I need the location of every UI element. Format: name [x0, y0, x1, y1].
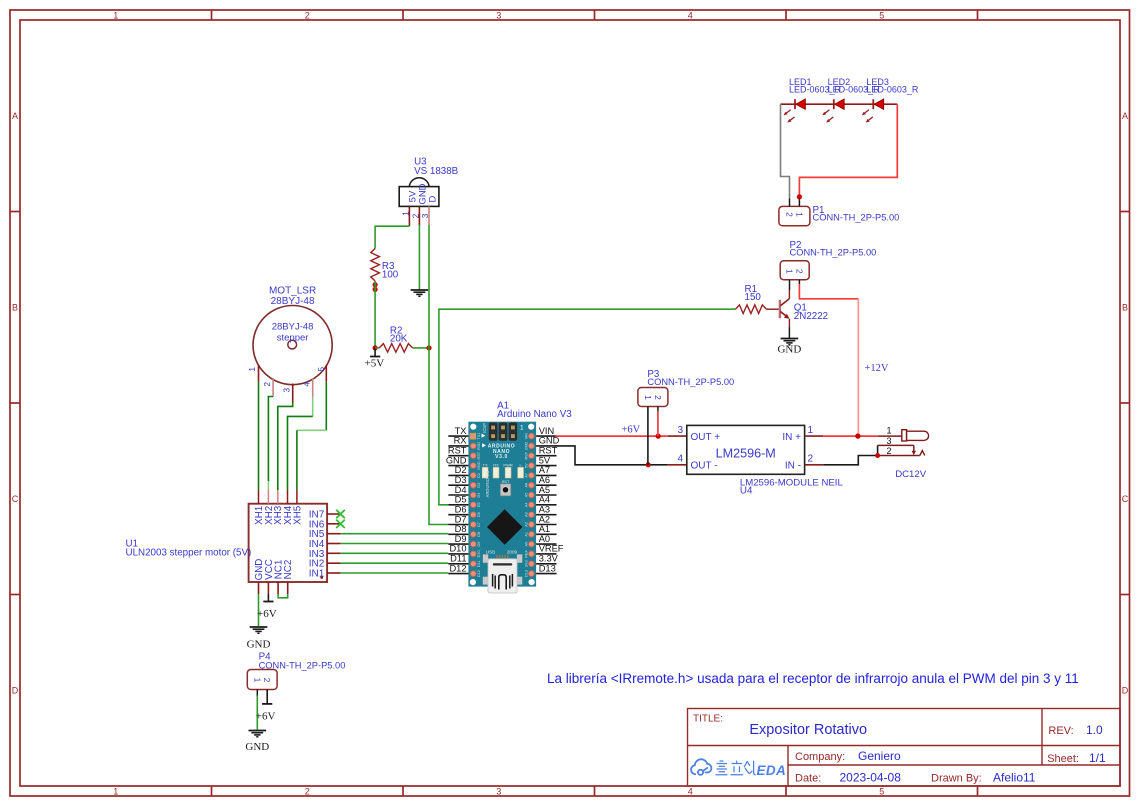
svg-text:D3: D3 [477, 483, 481, 488]
svg-text:2: 2 [305, 787, 310, 797]
pin stubs U1 XH1..XH5 [258, 490, 260, 504]
wire: P4 pin1 to ground [256, 690, 258, 696]
svg-text:B: B [1122, 303, 1128, 313]
transistor Q1 2N2222 [780, 299, 790, 319]
svg-text:D12: D12 [477, 570, 481, 577]
svg-text:D10: D10 [449, 544, 466, 554]
svg-text:TITLE:: TITLE: [693, 714, 723, 725]
regulator U4 LM2596-M [687, 425, 805, 474]
wire: P3 pin2 to OUT+ [657, 407, 659, 412]
wire: IN+ to DC jack (red) [805, 435, 824, 437]
svg-text:Date:: Date: [795, 773, 821, 785]
svg-text:100: 100 [382, 270, 399, 281]
svg-text:D3: D3 [455, 475, 467, 485]
LED LED1 LED-0603_R [784, 99, 806, 123]
svg-text:A3: A3 [539, 505, 550, 515]
svg-text:GND: GND [525, 441, 529, 450]
svg-text:VIN: VIN [525, 433, 529, 440]
wire: D5 PWM to R1 (green) [439, 309, 736, 505]
svg-text:5V: 5V [539, 455, 551, 465]
svg-text:3: 3 [886, 436, 891, 446]
svg-text:TX1: TX1 [477, 433, 481, 440]
svg-text:D2: D2 [477, 473, 481, 478]
pin stubs U1 IN7..IN1 [327, 513, 341, 515]
svg-text:EDA: EDA [757, 763, 787, 778]
no-connect X on IN6 [336, 520, 345, 528]
svg-text:1: 1 [643, 395, 653, 400]
svg-text:VS 1838B: VS 1838B [414, 166, 459, 177]
svg-text:OUT -: OUT - [691, 461, 718, 472]
svg-text:2: 2 [262, 382, 272, 387]
connector P2 CONN-TH_2P-P5.00 [780, 261, 809, 280]
svg-text:A1: A1 [539, 524, 550, 534]
svg-text:GND: GND [777, 344, 801, 356]
svg-text:D11: D11 [450, 554, 466, 564]
ground symbol (P4) [249, 730, 267, 732]
pin stubs Arduino right VIN..D13 [536, 435, 556, 437]
svg-text:La librería <IRremote.h> usada: La librería <IRremote.h> usada para el r… [547, 671, 1079, 686]
module A1 Arduino Nano V3 [468, 422, 536, 593]
svg-text:A6: A6 [539, 475, 550, 485]
svg-text:A2: A2 [539, 514, 550, 524]
svg-text:2: 2 [808, 454, 814, 465]
wire: U1 GND to ground [258, 594, 260, 626]
svg-text:Geniero: Geniero [858, 749, 901, 763]
svg-text:A: A [12, 111, 18, 121]
svg-text:Sheet:: Sheet: [1047, 753, 1079, 765]
connector P4 CONN-TH_2P-P5.00 [247, 670, 277, 690]
svg-text:OUT +: OUT + [691, 432, 721, 443]
wire: U3 D / R2 to Arduino D7 [428, 225, 430, 348]
svg-text:28BYJ-48: 28BYJ-48 [272, 322, 314, 333]
svg-text:CONN-TH_2P-P5.00: CONN-TH_2P-P5.00 [259, 661, 346, 671]
svg-text:D2: D2 [455, 465, 467, 475]
svg-text:A0: A0 [539, 534, 550, 544]
title block [688, 709, 1121, 787]
power symbol +6V (U1 VCC) [267, 594, 269, 602]
svg-text:D11: D11 [477, 560, 481, 567]
wire: +12V vertical (light red) [857, 299, 859, 436]
svg-text:4: 4 [302, 382, 312, 387]
svg-text:CONN-TH_2P-P5.00: CONN-TH_2P-P5.00 [813, 213, 900, 223]
svg-text:5V: 5V [525, 463, 529, 468]
svg-text:C: C [12, 494, 19, 504]
svg-text:A7: A7 [539, 465, 550, 475]
svg-text:1: 1 [113, 11, 118, 21]
svg-text:3: 3 [496, 787, 501, 797]
svg-text:+12V: +12V [865, 363, 889, 374]
svg-text:Expositor Rotativo: Expositor Rotativo [749, 722, 867, 738]
svg-text:1: 1 [252, 678, 262, 683]
svg-text:1.0: 1.0 [1086, 723, 1103, 737]
svg-text:+6V: +6V [257, 608, 277, 620]
svg-text:DC12V: DC12V [895, 469, 927, 480]
wire: LED chain top rail [781, 103, 898, 105]
pin stubs Arduino left TX..D12 [448, 435, 468, 437]
svg-text:U4: U4 [740, 486, 753, 497]
wire: IN- to DC jack (black) [805, 464, 824, 466]
power symbol +5V [374, 348, 376, 357]
svg-text:D8: D8 [477, 532, 481, 537]
svg-text:NC2: NC2 [283, 560, 294, 580]
resistor R1 150 [736, 305, 767, 314]
svg-text:LM2596-MODULE NEIL: LM2596-MODULE NEIL [740, 478, 844, 489]
svg-text:D5: D5 [477, 502, 481, 507]
ground symbol (U1) [250, 626, 268, 628]
IC U1 ULN2003 stepper motor (5V) [249, 504, 328, 582]
svg-text:2: 2 [305, 11, 310, 21]
svg-text:GND: GND [245, 741, 269, 753]
no-connect X on IN7 [336, 510, 345, 518]
svg-text:3V3: 3V3 [525, 560, 529, 567]
junction: R2 left node [373, 345, 378, 350]
svg-text:RX: RX [454, 436, 467, 446]
wire: motor pin5 to XH5 [325, 382, 327, 431]
LED LED3 LED-0603_R [862, 99, 884, 123]
svg-text:Afelio11: Afelio11 [993, 771, 1036, 785]
svg-text:D: D [12, 686, 19, 696]
wires: U1 IN5..IN1 to Arduino D8..D12 [341, 533, 449, 535]
svg-text:1: 1 [808, 425, 814, 436]
svg-text:5: 5 [879, 11, 884, 21]
svg-text:D6: D6 [455, 505, 467, 515]
wire: LED chain left drop (gray) to P1 pin 2 [781, 104, 790, 198]
svg-text:A5: A5 [539, 485, 550, 495]
resistor R3 100 [371, 249, 380, 282]
svg-text:2: 2 [653, 395, 663, 400]
junction: R2 right node [426, 345, 431, 350]
svg-text:A0: A0 [525, 542, 529, 547]
svg-text:RST: RST [448, 446, 467, 456]
svg-text:1: 1 [520, 424, 524, 431]
svg-text:2: 2 [785, 212, 795, 217]
svg-text:1: 1 [247, 367, 257, 372]
svg-text:D10: D10 [477, 550, 481, 557]
connector DC12V barrel jack [878, 430, 929, 456]
ground symbol (U3) [411, 289, 429, 291]
svg-text:1/1: 1/1 [1089, 751, 1106, 765]
svg-text:D4: D4 [477, 493, 481, 498]
svg-text:VIN: VIN [539, 426, 555, 436]
wire: motor pin4 to XH4 [312, 397, 314, 417]
junction: OUT- node [646, 462, 651, 467]
svg-text:D: D [1122, 686, 1129, 696]
svg-text:4: 4 [688, 787, 693, 797]
wire: P2 pin2 to +12V rail [798, 280, 800, 284]
junction: OUT+ node [656, 434, 661, 439]
svg-text:D6: D6 [477, 512, 481, 517]
svg-text:1: 1 [794, 212, 804, 217]
svg-text:D: D [428, 195, 439, 202]
svg-text:4: 4 [688, 11, 693, 21]
svg-text:B: B [12, 303, 18, 313]
svg-text:D7: D7 [477, 522, 481, 527]
svg-text:+6V: +6V [622, 425, 641, 436]
pin stub: Q1 collector [788, 290, 790, 299]
svg-text:D13: D13 [525, 570, 529, 577]
op: U3 VS 1838B IR receiver [399, 178, 439, 207]
wire: LED chain right drop (red) [799, 104, 897, 197]
wire: VIN to OUT+ (red) [555, 435, 668, 437]
wire: P2 pin1 to Q1 collector [789, 280, 791, 290]
motor MOT_LSR 28BYJ-48 [253, 306, 332, 385]
junction dots below R3 [373, 282, 378, 287]
svg-text:D5: D5 [455, 495, 467, 505]
wire: motor pin3 to XH3 [278, 403, 293, 491]
junction: P1 pin1 node [797, 194, 802, 199]
wire: U3 GND down [418, 225, 420, 290]
svg-text:A3: A3 [525, 512, 529, 517]
svg-text:REV:: REV: [1048, 725, 1073, 737]
resistor R2 20K [375, 347, 379, 349]
svg-text:A7: A7 [525, 473, 529, 478]
svg-text:IN -: IN - [785, 461, 801, 472]
svg-text:PWR: PWR [503, 462, 512, 467]
svg-text:1: 1 [886, 426, 891, 436]
connector P1 CONN-TH_2P-P5.00 [779, 199, 810, 226]
svg-text:A4: A4 [525, 502, 529, 507]
svg-text:D9: D9 [477, 542, 481, 547]
LED LED2 LED-0603_R [822, 99, 844, 123]
svg-text:Company:: Company: [795, 751, 845, 763]
svg-text:3: 3 [496, 11, 501, 21]
svg-text:D9: D9 [455, 534, 467, 544]
svg-text:5: 5 [316, 367, 326, 372]
svg-text:D8: D8 [455, 524, 467, 534]
svg-text:4: 4 [677, 454, 683, 465]
junction: jack pin2 node [875, 453, 880, 458]
svg-text:28BYJ-48: 28BYJ-48 [271, 296, 315, 307]
svg-text:3: 3 [420, 213, 430, 218]
svg-text:RST: RST [502, 480, 510, 484]
svg-text:150: 150 [745, 292, 762, 303]
svg-text:VREF: VREF [539, 544, 564, 554]
svg-text:+6V: +6V [256, 711, 276, 723]
svg-text:2009: 2009 [507, 550, 518, 555]
svg-text:A2: A2 [525, 522, 529, 527]
svg-text:REF: REF [525, 549, 529, 557]
svg-text:A: A [1122, 111, 1128, 121]
svg-text:ICSP: ICSP [482, 423, 487, 433]
ground symbol (Q1 emitter) [781, 338, 799, 340]
EasyEDA logo [691, 759, 711, 775]
svg-text:RST: RST [477, 451, 481, 459]
svg-text:RST: RST [525, 451, 529, 459]
svg-text:GND: GND [539, 436, 560, 446]
svg-text:XH5: XH5 [292, 505, 303, 525]
svg-text:ULN2003 stepper motor (5V): ULN2003 stepper motor (5V) [126, 548, 252, 559]
pin stub: Q1 emitter + wire to GND [788, 319, 790, 327]
wire: R3 to R2 left / +5V [374, 281, 376, 348]
svg-text:USB: USB [486, 550, 495, 555]
pin stubs motor 1..5 [258, 365, 260, 382]
svg-text:1: 1 [113, 787, 118, 797]
svg-text:2: 2 [262, 678, 272, 683]
svg-text:3: 3 [282, 388, 292, 393]
wire: P3 pin1 to OUT- [647, 407, 649, 465]
svg-text:LM2596-M: LM2596-M [716, 447, 776, 461]
svg-text:GND: GND [477, 461, 481, 470]
svg-text:1: 1 [785, 269, 795, 274]
junction: IN+ / +12V node [855, 433, 860, 438]
svg-text:IN +: IN + [782, 432, 801, 443]
svg-text:2023-04-08: 2023-04-08 [840, 771, 902, 785]
pin stubs U3 1,2,3 [408, 206, 410, 226]
svg-text:TX: TX [455, 426, 467, 436]
svg-text:3.3V: 3.3V [539, 554, 559, 564]
svg-text:GND: GND [446, 455, 467, 465]
svg-text:D13: D13 [539, 563, 556, 573]
svg-text:RST: RST [539, 446, 558, 456]
svg-text:TX: TX [483, 462, 488, 467]
svg-text:2: 2 [794, 269, 804, 274]
svg-text:Arduino Nano V3: Arduino Nano V3 [497, 409, 572, 420]
svg-text:1: 1 [400, 211, 410, 216]
svg-text:MOT_LSR: MOT_LSR [269, 286, 316, 297]
wire: motor pin2 to XH2 [268, 397, 273, 482]
svg-text:GND: GND [247, 639, 271, 651]
svg-text:A6: A6 [525, 483, 529, 488]
svg-text:C: C [1122, 494, 1129, 504]
svg-text:D12: D12 [449, 563, 466, 573]
wire: motor pin1 to XH1 [258, 382, 260, 490]
svg-text:ARDUINO-CC: ARDUINO-CC [485, 471, 490, 498]
wire: NC1-NC2 link [278, 594, 288, 598]
svg-text:RX: RX [493, 462, 499, 467]
svg-text:20K: 20K [390, 334, 408, 345]
wire: U3 5V to R3 [375, 226, 409, 248]
svg-text:stepper: stepper [277, 333, 309, 344]
connector P3 CONN-TH_2P-P5.00 [638, 388, 668, 407]
svg-text:A1: A1 [525, 532, 529, 537]
wire: Arduino GND to OUT- (black) [555, 446, 668, 465]
svg-text:V3.0: V3.0 [495, 454, 508, 460]
svg-text:D4: D4 [455, 485, 467, 495]
power symbol +6V (P4 pin2) [266, 690, 268, 704]
svg-text:5: 5 [879, 787, 884, 797]
pin stubs U1 GND/VCC/NC1/NC2 [258, 582, 260, 594]
svg-text:A5: A5 [525, 493, 529, 498]
svg-text:Drawn By:: Drawn By: [931, 773, 982, 785]
svg-text:+5V: +5V [365, 358, 385, 370]
svg-text:CONN-TH_2P-P5.00: CONN-TH_2P-P5.00 [647, 377, 734, 387]
svg-text:2: 2 [410, 213, 420, 218]
svg-text:D7: D7 [455, 514, 467, 524]
svg-text:3: 3 [677, 425, 683, 436]
svg-text:A4: A4 [539, 495, 550, 505]
svg-text:RXD: RXD [477, 442, 481, 450]
svg-text:2N2222: 2N2222 [794, 311, 828, 322]
svg-text:2: 2 [886, 446, 891, 456]
svg-text:LED-0603_R: LED-0603_R [866, 85, 919, 95]
svg-text:CONN-TH_2P-P5.00: CONN-TH_2P-P5.00 [790, 248, 877, 258]
